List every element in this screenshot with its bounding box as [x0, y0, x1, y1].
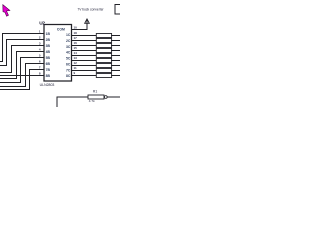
background	[0, 0, 120, 107]
wire load9 right	[112, 75, 120, 77]
svg-text:7B: 7B	[46, 68, 51, 72]
wire COM to power riser	[72, 20, 88, 30]
wire load8 right	[112, 70, 120, 72]
svg-text:R1: R1	[93, 89, 97, 93]
svg-text:4B: 4B	[46, 50, 51, 54]
svg-text:8C: 8C	[66, 74, 71, 78]
svg-text:8B: 8B	[46, 74, 51, 78]
svg-text:4C: 4C	[66, 51, 71, 55]
wire 4B	[0, 52, 44, 79]
wire 5C	[72, 55, 97, 57]
resistor load 5	[96, 54, 111, 58]
svg-text:1B: 1B	[46, 32, 51, 36]
wire load6 right	[112, 60, 120, 62]
wire R1 right	[107, 96, 120, 98]
svg-text:15: 15	[74, 46, 78, 50]
svg-text:18: 18	[74, 31, 78, 35]
wire 3B	[0, 46, 44, 73]
svg-text:5B: 5B	[46, 56, 51, 60]
wire load3 right	[112, 45, 120, 47]
IC U2 (ULN2803 darlington driver) body	[44, 25, 72, 82]
mouse cursor (magenta pointer)	[3, 5, 10, 17]
svg-text:5C: 5C	[66, 57, 71, 61]
terminal circle at R1 right	[104, 96, 107, 99]
resistor load 1	[96, 34, 111, 38]
resistor load 9	[96, 74, 111, 78]
wire 8B	[0, 75, 44, 77]
wire load5 right	[112, 55, 120, 57]
resistor R1 body	[88, 95, 104, 99]
resistor load 2	[96, 39, 111, 43]
svg-text:2C: 2C	[66, 39, 71, 43]
svg-text:13: 13	[74, 56, 78, 60]
resistor load 4	[96, 49, 111, 53]
wire load4 right	[112, 50, 120, 52]
resistor load 3	[96, 44, 111, 48]
wire 2B	[0, 40, 44, 66]
resistor load 7	[96, 64, 111, 68]
wire 2C	[72, 40, 97, 42]
wire 4C	[72, 50, 97, 52]
wire load7 right	[112, 65, 120, 67]
svg-text:6B: 6B	[46, 62, 51, 66]
wire load2 right	[112, 40, 120, 42]
svg-text:3C: 3C	[66, 45, 71, 49]
wire R1 left with vertical drop to bottom edge	[57, 97, 88, 107]
svg-text:7V buck converter: 7V buck converter	[77, 7, 104, 11]
svg-text:COM: COM	[57, 28, 65, 32]
wire 6C	[72, 60, 97, 62]
svg-text:10: 10	[74, 26, 78, 30]
wire load1 right	[112, 35, 120, 37]
svg-text:ULN2803: ULN2803	[40, 83, 55, 87]
power symbol arrow head (7V supply)	[85, 19, 90, 23]
svg-text:7C: 7C	[66, 68, 71, 72]
wire E	[72, 75, 97, 77]
svg-text:17: 17	[74, 36, 78, 40]
svg-text:U2: U2	[39, 20, 45, 26]
svg-text:11: 11	[74, 66, 78, 70]
wire 5B	[0, 58, 44, 83]
svg-text:3B: 3B	[46, 44, 51, 48]
wire 7C	[72, 65, 97, 67]
resistor load 6	[96, 59, 111, 63]
svg-text:2B: 2B	[46, 38, 51, 42]
wire 3C	[72, 45, 97, 47]
svg-text:6C: 6C	[66, 62, 71, 66]
wire 1B	[0, 34, 44, 62]
resistor load 8	[96, 69, 111, 73]
svg-text:14: 14	[74, 51, 78, 55]
svg-text:1C: 1C	[66, 33, 71, 37]
svg-text:16: 16	[74, 41, 78, 45]
wire 7B	[0, 70, 44, 90]
wire 1C	[72, 35, 97, 37]
wire 6B	[0, 64, 44, 87]
svg-text:12: 12	[74, 61, 78, 65]
wire 8C	[72, 70, 97, 72]
svg-text:4.7k: 4.7k	[89, 99, 95, 103]
connector box top right (partial)	[115, 5, 120, 15]
